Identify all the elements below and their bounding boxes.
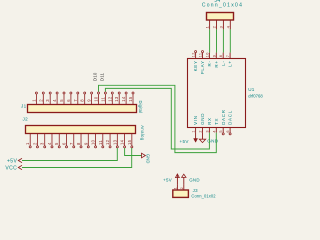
op-amp U1 DFR0768 body (188, 59, 246, 128)
J1 pin 13 (114, 92, 120, 105)
J1 pin 10 (94, 92, 100, 105)
svg-text:6: 6 (66, 99, 71, 102)
U1 DACR unconnected end (222, 133, 224, 135)
J1 pin 7 (73, 92, 79, 105)
J4 pin 1 (205, 20, 210, 29)
svg-text:13: 13 (114, 96, 119, 102)
J4 pin 2 (212, 20, 217, 29)
svg-text:5: 5 (59, 99, 64, 102)
J1 pin 14 (121, 92, 127, 105)
svg-text:2: 2 (212, 25, 217, 28)
U1 top pin 7 L+ (226, 53, 233, 67)
U1 bottom pin 5 DACR (219, 109, 226, 132)
U1 bottom pin 1 VIN (192, 115, 199, 132)
wire U1 TX to J1 pin 10 (99, 85, 217, 152)
svg-text:1: 1 (192, 130, 196, 132)
wire J2 pin 15 to VCC rail (22, 148, 132, 168)
svg-text:12: 12 (107, 96, 112, 102)
svg-text:2: 2 (180, 187, 184, 189)
J1 pin 3 (45, 92, 51, 105)
U1 top pin 8 L- (219, 53, 226, 66)
U1 bottom pin 6 DACL (226, 110, 233, 133)
J2 pin 10 (91, 133, 97, 148)
power +5V at J3 pin 1 (163, 174, 179, 184)
power +5V at U1 VIN (179, 133, 197, 145)
U1 top pin 12 KEY (192, 51, 199, 72)
svg-text:10: 10 (91, 139, 96, 145)
ground at U1 GND (199, 133, 218, 144)
svg-text:2: 2 (199, 130, 203, 132)
J2 pin 15 (127, 133, 133, 148)
wire J4 pin 4 to U1 (229, 29, 231, 52)
svg-text:10: 10 (205, 52, 209, 57)
svg-text:D10: D10 (92, 72, 97, 81)
J2 pin 5 (54, 133, 60, 148)
connector J3 Conn_01x02 body (173, 188, 216, 199)
svg-text:11: 11 (100, 96, 105, 101)
J2 pin 14 (120, 133, 126, 148)
J1 pin 4 (52, 92, 58, 105)
J2 pin 3 (40, 133, 46, 148)
J1 pin 5 (59, 92, 65, 105)
svg-text:1: 1 (25, 142, 30, 145)
svg-text:14: 14 (120, 139, 125, 145)
svg-text:3: 3 (40, 142, 45, 145)
J1 pin 15 (128, 92, 134, 105)
svg-text:D11: D11 (99, 72, 104, 81)
svg-text:4: 4 (47, 142, 52, 145)
svg-text:14: 14 (121, 96, 126, 102)
svg-text:J3: J3 (193, 188, 198, 193)
svg-text:11: 11 (98, 140, 103, 145)
svg-text:5: 5 (54, 142, 59, 145)
J1 pin 11 (100, 92, 106, 105)
svg-text:3: 3 (45, 99, 50, 102)
svg-text:VCC: VCC (5, 165, 17, 171)
svg-text:Digital: Digital (138, 101, 143, 114)
svg-text:8: 8 (219, 55, 223, 57)
U1 top pin 10 R- (205, 52, 212, 66)
U1 bottom pin 4 TX (212, 118, 219, 133)
J2 pin 8 (76, 133, 82, 148)
svg-text:L+: L+ (228, 60, 233, 67)
svg-text:L-: L- (221, 60, 226, 65)
svg-text:2: 2 (38, 99, 43, 102)
svg-text:J2: J2 (23, 116, 29, 121)
J3 pin 1 (173, 184, 177, 190)
ground at J2 pin 14 (142, 153, 151, 163)
svg-text:GND: GND (200, 113, 205, 125)
J4 pin 4 (225, 20, 230, 29)
svg-text:4: 4 (225, 25, 230, 28)
svg-text:VIN: VIN (193, 115, 198, 125)
J1 pin 2 (38, 92, 44, 105)
svg-text:11: 11 (199, 53, 203, 58)
svg-text:9: 9 (87, 99, 92, 102)
svg-text:GND: GND (189, 177, 200, 182)
wire U1 RX to J1 pin 11 (105, 88, 209, 149)
connector J1 Digital body (21, 104, 137, 113)
svg-text:1: 1 (205, 25, 210, 28)
J1 pin 6 (66, 92, 72, 105)
svg-text:RX: RX (207, 117, 212, 125)
J1 pin 1 (31, 92, 37, 105)
svg-text:8: 8 (76, 142, 81, 145)
svg-text:+5V: +5V (179, 139, 189, 144)
wire J4 pin 1 to U1 (209, 29, 211, 52)
J2 pin 9 (83, 133, 89, 148)
svg-text:9: 9 (83, 142, 88, 145)
svg-text:drf0768: drf0768 (248, 94, 263, 99)
wire J4 pin 3 to U1 (222, 29, 224, 52)
svg-text:2: 2 (32, 142, 37, 145)
svg-text:3: 3 (218, 25, 223, 28)
J1 pin 9 (87, 92, 93, 105)
power VCC left (5, 165, 22, 171)
J2 pin 7 (69, 133, 75, 148)
J2 pin 6 (62, 133, 68, 148)
svg-text:U1: U1 (248, 87, 255, 92)
J2 pin 1 (25, 133, 31, 148)
svg-text:KEY: KEY (193, 60, 198, 71)
svg-text:6: 6 (226, 130, 230, 132)
J2 pin 13 (112, 133, 118, 148)
svg-text:+5V: +5V (7, 158, 18, 164)
svg-text:7: 7 (226, 55, 230, 57)
J2 pin 2 (32, 133, 38, 148)
U1 bottom pin 3 RX (205, 117, 212, 132)
wire J4 pin 2 to U1 (216, 29, 218, 52)
svg-text:12: 12 (105, 139, 110, 145)
svg-text:13: 13 (112, 139, 117, 145)
svg-text:GND: GND (145, 154, 150, 164)
power +5V left (7, 158, 22, 164)
svg-text:Analog: Analog (140, 125, 145, 141)
svg-text:PLAY: PLAY (200, 60, 205, 74)
svg-text:7: 7 (73, 99, 78, 102)
svg-text:15: 15 (128, 96, 133, 102)
J2 pin 11 (98, 133, 104, 148)
U1 reference and value (248, 87, 263, 99)
svg-text:R-: R- (207, 60, 212, 66)
svg-text:+5V: +5V (163, 177, 172, 182)
svg-text:1: 1 (173, 187, 177, 189)
svg-text:J1: J1 (21, 104, 27, 109)
svg-text:TX: TX (214, 118, 219, 125)
svg-text:7: 7 (69, 142, 74, 145)
svg-text:4: 4 (52, 99, 57, 102)
connector J4 Conn_01x04 (202, 0, 243, 20)
svg-text:6: 6 (62, 142, 67, 145)
svg-text:R+: R+ (214, 60, 219, 67)
J4 pin 3 (218, 20, 223, 29)
U1 top pin 9 R+ (212, 53, 219, 68)
U1 DACL unconnected end (229, 133, 231, 135)
svg-text:9: 9 (212, 55, 216, 57)
connector J2 Analog body (23, 116, 136, 133)
J2 pin 12 (105, 133, 111, 148)
U1 bottom pin 2 GND (199, 113, 206, 133)
ground at J3 pin 2 (182, 174, 200, 184)
svg-text:4: 4 (212, 130, 216, 132)
J1 pin 12 (107, 92, 113, 105)
J3 pin 2 (180, 184, 184, 190)
svg-text:1: 1 (31, 99, 36, 102)
svg-text:3: 3 (205, 130, 209, 132)
svg-text:12: 12 (192, 52, 196, 57)
svg-text:Conn_01x04: Conn_01x04 (202, 3, 243, 9)
svg-text:Conn_01x02: Conn_01x02 (191, 193, 216, 198)
wire J2 pin 14 to ground (125, 148, 142, 156)
svg-text:10: 10 (94, 96, 99, 102)
svg-text:5: 5 (219, 130, 223, 132)
J2 pin 4 (47, 133, 53, 148)
U1 top pin 11 PLAY (199, 51, 206, 75)
svg-text:15: 15 (127, 139, 132, 145)
svg-text:DACL: DACL (228, 110, 233, 125)
svg-text:8: 8 (80, 99, 85, 102)
svg-text:DACR: DACR (221, 109, 226, 125)
wire J2 pin 13 to +5V rail (22, 148, 117, 161)
J1 pin 8 (80, 92, 86, 105)
